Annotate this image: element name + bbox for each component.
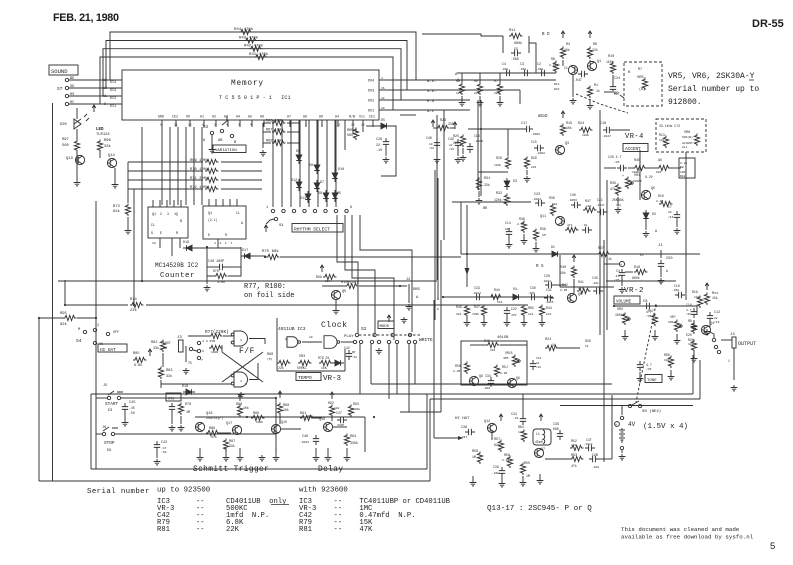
transistor Q7 bbox=[534, 448, 543, 457]
pin stub CE2 bbox=[175, 120, 177, 127]
wire s2 drop4 bbox=[396, 344, 398, 394]
wire hh out bbox=[599, 458, 612, 460]
svg-text:C8: C8 bbox=[643, 300, 648, 304]
wire hh feed bbox=[434, 437, 462, 439]
wire DO2 bbox=[379, 99, 470, 101]
svg-text:/35: /35 bbox=[614, 160, 620, 164]
wire R69 right bbox=[221, 161, 262, 163]
resistor R28 bbox=[505, 157, 510, 169]
svg-text:13: 13 bbox=[103, 86, 107, 90]
svg-text:D1: D1 bbox=[551, 245, 555, 249]
capacitor C45b bbox=[593, 288, 603, 294]
ground x328 bbox=[325, 455, 332, 461]
wire bus x640a bbox=[639, 150, 641, 200]
svg-text:4M5: 4M5 bbox=[503, 357, 509, 360]
svg-text:500KC: 500KC bbox=[297, 366, 307, 370]
svg-text:Delay: Delay bbox=[318, 466, 343, 474]
wire Q15-R91 bbox=[281, 428, 301, 430]
wire gnd bbox=[670, 370, 672, 374]
ground n507 bbox=[504, 320, 511, 326]
ground n467 bbox=[464, 320, 471, 326]
svg-text:D9: D9 bbox=[318, 192, 322, 196]
diode D9 bbox=[323, 190, 329, 202]
svg-text:OFF: OFF bbox=[113, 331, 119, 335]
wire row 384 bbox=[371, 383, 612, 385]
switch S1 contact 2 bbox=[282, 209, 285, 212]
wire C29 gnd bbox=[385, 148, 387, 156]
diode D5b bbox=[332, 190, 338, 202]
ground mid bbox=[259, 455, 266, 461]
svg-text:CE1: CE1 bbox=[369, 115, 375, 119]
wire R29 gnd bbox=[526, 170, 528, 175]
IC U2a counter bbox=[148, 207, 188, 238]
wire gnd drop bbox=[523, 234, 525, 238]
wire R67 r bbox=[287, 131, 300, 133]
capacitor C19 bbox=[506, 228, 512, 238]
resistor R5 bbox=[477, 83, 482, 95]
ground C48 bbox=[434, 157, 441, 163]
wire R/W net bbox=[352, 127, 354, 134]
svg-text:500KC: 500KC bbox=[633, 180, 642, 183]
svg-text:R95: R95 bbox=[60, 312, 68, 316]
wire gnd bbox=[523, 317, 525, 320]
wire to VR5 bbox=[604, 91, 612, 93]
svg-text:NP: NP bbox=[352, 351, 356, 354]
svg-text:HI HAT: HI HAT bbox=[455, 417, 470, 421]
jack contact c bbox=[717, 350, 720, 353]
svg-text:1M: 1M bbox=[472, 455, 476, 459]
capacitor C39 bbox=[499, 467, 505, 477]
junction R74 x134 bbox=[133, 304, 135, 306]
diode D1 bbox=[332, 360, 344, 366]
resistor R17 bbox=[652, 314, 657, 326]
wire hh out a bbox=[545, 458, 571, 460]
svg-text:18K: 18K bbox=[680, 171, 686, 174]
ground x200 bbox=[197, 455, 204, 461]
svg-text:R77, R100:: R77, R100: bbox=[244, 283, 286, 291]
wire R72 left bbox=[128, 188, 203, 190]
svg-text:R19: R19 bbox=[692, 290, 698, 294]
capacitor C48 bbox=[585, 445, 595, 451]
svg-text:A8: A8 bbox=[303, 115, 307, 119]
diode D17 bbox=[241, 253, 253, 259]
wire memory to rhythm bus bbox=[290, 120, 292, 207]
wire D16 right bbox=[193, 247, 241, 249]
resistor R97 bbox=[74, 140, 79, 152]
wire drop bbox=[519, 90, 521, 104]
svg-text:912800.: 912800. bbox=[668, 98, 702, 107]
svg-text:R26: R26 bbox=[585, 339, 591, 343]
svg-text:R97: R97 bbox=[62, 138, 69, 142]
pin stub IC2a bbox=[180, 200, 182, 207]
resistor VR3 bbox=[298, 360, 311, 365]
switch S1 contact 8 bbox=[345, 209, 348, 212]
pin stub A6 bbox=[263, 120, 265, 127]
svg-text:E: E bbox=[208, 234, 210, 238]
ground C49 bbox=[455, 157, 462, 163]
svg-text:45mH: 45mH bbox=[535, 440, 543, 444]
wire C50 gnd bbox=[660, 270, 662, 277]
ground v694 bbox=[691, 356, 698, 362]
switch S3 contact B bbox=[230, 134, 233, 137]
switch S4 ON contact bbox=[93, 341, 96, 344]
wire Q13 gnd bbox=[76, 168, 78, 180]
svg-text:R55: R55 bbox=[524, 462, 530, 466]
supply arrow L1 bbox=[539, 414, 543, 421]
wire jack bbox=[721, 339, 732, 341]
resistor R86 bbox=[206, 430, 219, 435]
svg-text:120k: 120k bbox=[494, 163, 501, 167]
resistor R67 bbox=[272, 129, 285, 134]
svg-text:RHYTHM SELECT: RHYTHM SELECT bbox=[294, 227, 330, 233]
svg-text:.068: .068 bbox=[519, 68, 526, 71]
resistor R43 bbox=[244, 38, 257, 43]
battery plus terminal bbox=[619, 261, 624, 266]
ground sd2 524 bbox=[521, 238, 528, 244]
svg-text:-15: -15 bbox=[614, 275, 620, 278]
svg-text:C22: C22 bbox=[511, 307, 517, 311]
gate clock NAND2 bbox=[324, 336, 337, 349]
svg-text:R50: R50 bbox=[455, 364, 461, 368]
wire c40a bbox=[207, 266, 216, 268]
resistor R9 bbox=[459, 83, 464, 95]
svg-text:R56: R56 bbox=[504, 453, 510, 457]
svg-text:J4: J4 bbox=[730, 333, 735, 337]
wire gnd bbox=[466, 317, 468, 320]
switch J3 contact 6 bbox=[197, 341, 200, 344]
wire bus x604 bbox=[603, 240, 605, 462]
resistor R90 bbox=[277, 403, 282, 415]
inductor L1 bbox=[543, 430, 545, 444]
resistor R13 bbox=[663, 136, 668, 148]
capacitor C19b bbox=[589, 456, 599, 462]
svg-text:20: 20 bbox=[351, 124, 355, 127]
svg-text:Q15: Q15 bbox=[281, 421, 287, 425]
junction R95 bbox=[95, 317, 97, 319]
resistor R57 bbox=[498, 440, 503, 452]
switch S2 lower contact bbox=[359, 340, 362, 343]
wire C41 gnd bbox=[171, 413, 173, 424]
svg-text:R7: R7 bbox=[638, 68, 642, 72]
capacitor C17 bbox=[523, 126, 533, 132]
ground v655 bbox=[652, 334, 659, 340]
resistor R71 bbox=[205, 177, 218, 182]
wire R11C5 right bbox=[528, 36, 530, 53]
wire counter stub2 bbox=[171, 238, 173, 256]
wire Q13 emitter bbox=[76, 152, 78, 168]
wire memory to counter bus bbox=[201, 127, 203, 205]
resistor R53 bbox=[570, 456, 583, 461]
svg-text:R82: R82 bbox=[151, 341, 157, 345]
svg-text:R41 470k: R41 470k bbox=[249, 52, 269, 57]
svg-text:120k: 120k bbox=[494, 198, 502, 202]
svg-text:33k: 33k bbox=[153, 346, 159, 351]
wire S3 up bbox=[222, 116, 227, 125]
svg-text:with 923600: with 923600 bbox=[299, 487, 348, 495]
resistor R5acc bbox=[657, 165, 670, 170]
svg-text:C24: C24 bbox=[614, 77, 620, 81]
resistor R10b bbox=[610, 62, 615, 74]
switch S4 OFF contact bbox=[106, 332, 109, 335]
svg-text:C30: C30 bbox=[530, 286, 536, 290]
wire trigger SD bbox=[106, 41, 407, 91]
pin stub IC2b bbox=[208, 199, 210, 206]
svg-text:C34: C34 bbox=[511, 412, 517, 416]
svg-text:SOUND: SOUND bbox=[51, 68, 68, 75]
svg-text:Q8: Q8 bbox=[479, 374, 483, 378]
svg-text:22k: 22k bbox=[278, 366, 284, 370]
wire FF cross2 bbox=[222, 352, 263, 382]
svg-text:A.C: A.C bbox=[427, 110, 435, 114]
wire D2 gnd bbox=[645, 222, 647, 230]
svg-text:Q11: Q11 bbox=[540, 215, 546, 219]
diode D12 bbox=[296, 179, 302, 191]
svg-text:Q7: Q7 bbox=[541, 448, 545, 452]
junction volume b bbox=[655, 305, 657, 307]
ground C40 bbox=[204, 285, 211, 291]
supply arrow R85 bbox=[148, 349, 152, 356]
svg-text:4015B: 4015B bbox=[497, 336, 509, 340]
resistor R64 bbox=[521, 430, 526, 442]
wire R70 right bbox=[221, 170, 262, 172]
svg-text:T C 5 5 0 1 P - 1 IC1: T C 5 5 0 1 P - 1 IC1 bbox=[219, 95, 291, 101]
transistor Q15 bbox=[271, 424, 280, 433]
resistor R94 bbox=[344, 434, 349, 446]
wire D5 right bbox=[381, 126, 396, 176]
svg-text:R81 -- 47K: R81 -- 47K bbox=[299, 526, 373, 534]
wire bottom right bus bbox=[430, 398, 700, 400]
wire C12 gnd bbox=[709, 322, 711, 327]
svg-text:OD: OD bbox=[186, 115, 190, 119]
svg-text:S8 (NE2): S8 (NE2) bbox=[642, 409, 661, 414]
wire bbox=[628, 167, 634, 169]
underline Y bbox=[749, 79, 754, 81]
switch S2 upper contact bbox=[408, 333, 411, 336]
supply arrow S2 bbox=[387, 315, 391, 322]
ground C12 bbox=[704, 329, 711, 335]
resistor VR5 bbox=[642, 78, 647, 90]
svg-text:-0033: -0033 bbox=[300, 441, 309, 444]
svg-text:15K: 15K bbox=[321, 366, 327, 370]
svg-text:E1: E1 bbox=[640, 253, 644, 257]
capacitor C16 bbox=[467, 143, 473, 153]
svg-text:C39: C39 bbox=[493, 465, 499, 469]
wire bbox=[433, 127, 436, 129]
capacitor C4b bbox=[619, 269, 625, 279]
svg-text:A: A bbox=[666, 269, 668, 273]
svg-text:/16: /16 bbox=[429, 146, 434, 150]
wire R65 top bbox=[355, 128, 357, 132]
svg-text:1MA: 1MA bbox=[668, 321, 674, 324]
svg-text:available as free download by: available as free download by sysfo.nl bbox=[621, 534, 754, 541]
svg-text:R69 100k: R69 100k bbox=[190, 158, 209, 163]
resistor R100 bbox=[345, 283, 358, 288]
svg-text:2.2M: 2.2M bbox=[453, 370, 460, 373]
resistor R1 bbox=[587, 86, 592, 98]
wire start bbox=[96, 397, 107, 399]
ground Q13 bbox=[74, 180, 81, 186]
svg-text:R44: R44 bbox=[546, 306, 552, 310]
svg-text:2: 2 bbox=[97, 324, 99, 328]
svg-text:D8: D8 bbox=[309, 164, 313, 168]
wire S3 gnd bbox=[211, 135, 213, 147]
svg-text:VR-2: VR-2 bbox=[624, 287, 644, 295]
switch S2 lower contact bbox=[413, 340, 416, 343]
wire schmitt rail bbox=[195, 416, 365, 418]
wire R74 left bbox=[65, 304, 128, 306]
svg-text:C14: C14 bbox=[536, 357, 542, 360]
resistor R8b bbox=[553, 61, 558, 73]
svg-text:R76: R76 bbox=[213, 269, 219, 273]
svg-text:.0056: .0056 bbox=[568, 199, 577, 202]
diode D18 bbox=[183, 389, 195, 395]
diode D2 bbox=[643, 210, 649, 222]
inductor L1 box bbox=[533, 429, 551, 445]
wire start-stop drop bbox=[275, 398, 277, 452]
svg-text:R60: R60 bbox=[664, 353, 670, 357]
wire R1 gnd bbox=[589, 99, 591, 103]
svg-text:A2: A2 bbox=[212, 115, 216, 119]
wire C18 right bbox=[613, 129, 630, 131]
svg-text:330A: 330A bbox=[350, 441, 358, 445]
svg-text:J3: J3 bbox=[177, 336, 182, 340]
wire memory to rhythm bus bbox=[272, 120, 274, 207]
svg-text:J5: J5 bbox=[103, 384, 107, 388]
svg-text:Q1: Q1 bbox=[597, 60, 601, 64]
wire R66-68 join bbox=[262, 123, 264, 143]
svg-text:R1: R1 bbox=[594, 84, 598, 88]
capacitor C35 bbox=[557, 430, 563, 440]
resistor R77b bbox=[209, 333, 222, 338]
wire DO3 bbox=[379, 89, 470, 91]
wire c40b bbox=[226, 266, 241, 268]
wire J3 down bbox=[185, 346, 187, 362]
resistor R15 bbox=[560, 124, 565, 136]
ground S2b bbox=[401, 317, 408, 323]
wire counter stub1 bbox=[159, 238, 161, 248]
ground h473 bbox=[470, 480, 477, 486]
svg-text:D5: D5 bbox=[381, 119, 385, 123]
svg-text:LED: LED bbox=[96, 128, 104, 132]
svg-text:D5: D5 bbox=[337, 192, 341, 196]
wire memory to counter bus bbox=[161, 127, 163, 205]
ground h502 bbox=[499, 481, 506, 487]
svg-text:1M: 1M bbox=[186, 411, 190, 415]
svg-text:47P: 47P bbox=[511, 314, 517, 317]
svg-text:R24: R24 bbox=[578, 122, 584, 126]
svg-text:R68 100k: R68 100k bbox=[266, 139, 283, 144]
ground v694 bbox=[691, 324, 698, 330]
wire gnd drop bbox=[508, 238, 510, 242]
ground x240 bbox=[237, 455, 244, 461]
svg-text:4.7: 4.7 bbox=[686, 309, 692, 312]
ground v625 bbox=[622, 334, 629, 340]
svg-text:C42: C42 bbox=[344, 346, 350, 350]
ground C41 bbox=[169, 425, 176, 431]
box TEMPO bbox=[296, 373, 321, 381]
transistor Q5c bbox=[331, 290, 340, 299]
resistor R76 bbox=[214, 273, 227, 278]
wire stop row bbox=[115, 433, 276, 435]
resistor R63 bbox=[597, 251, 610, 256]
svg-text:B: B bbox=[180, 220, 182, 224]
svg-text:53k: 53k bbox=[497, 300, 503, 304]
ground D2 bbox=[643, 231, 650, 237]
wire J1 bottom bbox=[606, 280, 676, 282]
resistor R54 bbox=[545, 345, 558, 350]
wire R69 left bbox=[128, 161, 203, 163]
svg-text:-47: -47 bbox=[161, 447, 167, 450]
ground R31 bbox=[476, 198, 483, 204]
svg-text:R8: R8 bbox=[551, 57, 555, 61]
wire bus x600 bbox=[599, 110, 601, 335]
svg-text:R10: R10 bbox=[680, 175, 686, 178]
transistor Q11 bbox=[555, 216, 564, 225]
wire dashed to VR5 bbox=[576, 94, 628, 113]
box noise generator bbox=[461, 341, 527, 385]
svg-text:22: 22 bbox=[714, 317, 718, 320]
wire R67 l bbox=[263, 131, 271, 133]
wire gnd bbox=[676, 334, 678, 338]
svg-text:.0068: .0068 bbox=[474, 140, 483, 143]
svg-text:C40: C40 bbox=[570, 193, 576, 197]
svg-text:R10: R10 bbox=[658, 194, 664, 198]
svg-text:A5: A5 bbox=[248, 115, 252, 119]
svg-text:Q9: Q9 bbox=[516, 376, 520, 380]
transistor Q14 bbox=[107, 158, 116, 167]
switch S1 contact 6 bbox=[324, 209, 327, 212]
capacitor C50 bbox=[658, 260, 664, 270]
resistor R80 bbox=[277, 360, 290, 365]
svg-text:4011UB IC3: 4011UB IC3 bbox=[278, 326, 306, 332]
resistor R66 bbox=[272, 120, 285, 125]
svg-text:D7: D7 bbox=[320, 181, 324, 185]
svg-text:R7: R7 bbox=[494, 80, 498, 84]
svg-text:6.8k: 6.8k bbox=[134, 363, 142, 368]
diode D5 bbox=[378, 123, 390, 129]
pin stub IC2b bbox=[215, 199, 217, 206]
svg-text:R.S: R.S bbox=[427, 100, 435, 104]
svg-text:J2: J2 bbox=[406, 278, 410, 282]
ground v640 bbox=[637, 376, 644, 382]
switch J3 contact bbox=[189, 347, 192, 350]
wire mid bus 2 bbox=[443, 110, 445, 240]
capacitor C40 bbox=[216, 264, 226, 270]
svg-text:VARIATION: VARIATION bbox=[215, 149, 237, 153]
wire gnd bbox=[472, 476, 474, 480]
svg-text:E3: E3 bbox=[108, 409, 112, 413]
resistor R42b bbox=[565, 227, 578, 232]
svg-text:C38: C38 bbox=[461, 426, 467, 430]
wire S2 dashed row bbox=[359, 334, 420, 336]
gate F/F NAND2 bbox=[234, 372, 248, 387]
svg-text:1k: 1k bbox=[585, 344, 589, 348]
svg-text:4 3 k T: 4 3 k T bbox=[214, 241, 232, 245]
svg-text:R5: R5 bbox=[474, 80, 478, 84]
svg-text:DO3: DO3 bbox=[368, 90, 374, 94]
svg-text:S4: S4 bbox=[76, 338, 82, 344]
wire volume rail bbox=[614, 305, 697, 307]
capacitor C20 bbox=[571, 202, 581, 208]
potentiometer VR15 bbox=[512, 355, 517, 367]
ground S3 bbox=[209, 147, 216, 153]
potentiometer VR2 bbox=[622, 313, 627, 325]
svg-text:DI3: DI3 bbox=[110, 89, 116, 93]
wire left drop bbox=[64, 280, 66, 305]
transistor Q9 bbox=[507, 378, 516, 387]
wire s2 drop5 bbox=[408, 344, 410, 412]
svg-text:10k: 10k bbox=[586, 204, 592, 208]
